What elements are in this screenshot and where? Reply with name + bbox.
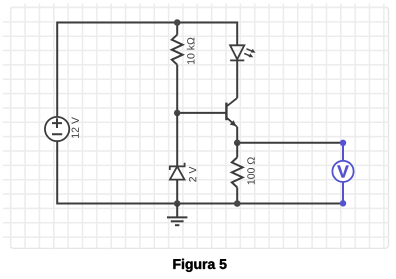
wire: base node to zener cathode: [176, 113, 178, 166]
zener diode D2 2 V: [170, 163, 185, 180]
LED D1 light arrows: [244, 49, 255, 58]
ground: [167, 204, 187, 226]
label 12 V: [72, 117, 79, 138]
wire: resistor R2 to bottom rail: [236, 187, 238, 203]
caption Figura 5: [173, 259, 226, 272]
source V1 12 V: [45, 117, 69, 141]
voltmeter M1: [332, 143, 353, 204]
wire: base node to transistor base: [177, 112, 226, 114]
transistor Q1 emitter arrow: [230, 120, 237, 126]
node: junction top rail / R1: [174, 19, 181, 26]
node: emitter / R2 / meter junction: [234, 140, 241, 147]
resistor R1 10 kOhm: [172, 35, 183, 65]
label 100 Ohm: [247, 157, 254, 184]
label 10 kOhm: [187, 38, 195, 64]
wire: output node to voltmeter top: [237, 142, 343, 144]
wire: top rail from left corner to LED branch: [57, 22, 237, 24]
wire: LED cathode to transistor collector: [236, 60, 238, 98]
wire: output node to resistor R2: [236, 143, 238, 158]
node: junction R1 / zener / base: [174, 110, 181, 117]
wire: LED branch drop from top rail: [236, 22, 238, 46]
node: voltmeter bottom terminal: [340, 200, 346, 206]
node: R2 / bottom rail junction: [234, 200, 241, 207]
wire: left vertical, top rail to source V1 plus terminal: [56, 22, 58, 118]
LED D1: [230, 45, 244, 60]
label 2 V: [189, 167, 196, 182]
wire: stub top rail to resistor R1: [176, 23, 178, 35]
node: voltmeter top terminal: [340, 140, 346, 146]
resistor R2 100 Ohm: [232, 157, 243, 187]
wire: left vertical, source V1 minus terminal to bottom rail: [56, 141, 58, 205]
wire: zener anode to bottom rail: [176, 180, 178, 204]
wire: resistor R1 bottom to base node: [176, 65, 178, 113]
wire: emitter to output node: [236, 127, 238, 143]
transistor Q1 NPN: [226, 98, 237, 127]
wire: bottom rail: [57, 203, 343, 205]
node: zener / ground junction: [174, 200, 181, 207]
